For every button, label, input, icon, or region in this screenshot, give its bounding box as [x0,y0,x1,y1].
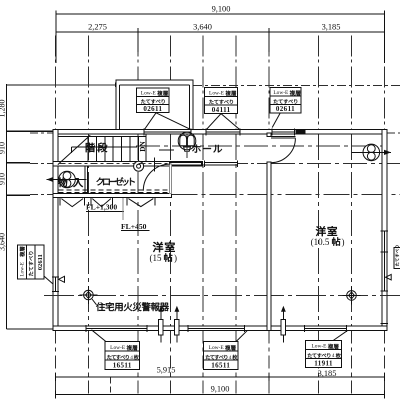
bay bump above stairs [116,80,193,130]
door to west room [271,137,296,163]
label closet [96,178,103,186]
wall outer right [382,130,387,331]
wall divider monoiri/closet [85,166,87,194]
dimension line 9100 bottom [55,385,384,399]
svg-text:DN: DN [139,141,147,152]
svg-text:(15: (15 [150,253,162,263]
grid vertical module lines [55,36,384,395]
stairs corner curl [134,161,144,171]
fire alarm symbol east [343,286,361,304]
svg-text:Low-E: Low-E [209,345,225,351]
dimension line 5915 / 3185 bottom [55,366,384,382]
svg-text:02611: 02611 [37,254,44,270]
closet east door leaf [169,164,171,194]
svg-text:9,100: 9,100 [211,385,230,394]
window right wall [381,231,388,323]
pointer right window [386,274,392,280]
wall closet south [53,194,172,198]
svg-text:2,275: 2,275 [88,22,107,31]
svg-text:Low-E: Low-E [141,90,157,96]
dimension line left column [0,84,53,329]
svg-text:3,185: 3,185 [318,369,337,378]
supply vent arrow 3 [281,306,286,343]
svg-text:02611: 02611 [143,105,162,113]
grid dash crossing side walls [53,294,59,296]
supply vent arrow 1 [158,306,163,343]
svg-text:910: 910 [0,142,7,154]
svg-text:9,100: 9,100 [212,4,231,13]
label FL+450 [121,222,150,231]
svg-text:3,185: 3,185 [322,22,341,31]
window tag T2 [205,88,238,114]
svg-text:4: 4 [130,355,133,361]
stairs label kaidan [86,143,95,152]
hall ceiling vent symbol [178,132,196,151]
svg-text:Low-E: Low-E [209,90,225,96]
svg-text:): ) [174,253,177,263]
grid horizontal module lines [7,85,400,295]
window tag B1 [92,330,140,370]
wall outer top [53,130,387,135]
grid dash inside closet north wall [59,163,169,165]
svg-text:(10.5: (10.5 [311,237,330,247]
passage opening header [205,161,238,167]
supply vent arrow 2 [174,306,179,343]
svg-text:4: 4 [332,353,335,359]
svg-text:5,915: 5,915 [157,366,176,375]
wall pier top right [296,130,305,134]
svg-text:FL+1,300: FL+1,300 [86,203,117,212]
svg-text:Low-E: Low-E [110,345,126,351]
window top A [144,128,191,135]
dimension line 9100 top [56,4,385,63]
window tag T1 [137,88,170,113]
label yoshitsu 15 [150,242,178,263]
tick on closet wall [154,158,156,172]
grid half-module line hall [186,134,188,163]
window tag right wall (clipped) [394,245,400,268]
closet hanger pole dashed [59,190,169,192]
window top B [206,128,240,135]
window tag B2 [204,330,248,369]
svg-text:Low-E: Low-E [273,90,289,96]
window tag T3 [270,88,301,114]
window bottom 3 [304,325,346,332]
label hall [192,145,200,153]
dimension line 2275/3640/3185 top [56,22,385,52]
stairs walk line [72,147,175,153]
tag T2 leader [207,114,240,130]
window top C [272,128,295,135]
fire alarm symbol west [79,286,97,304]
exhaust fan right wall [352,144,392,161]
label FL+1300 [86,198,124,220]
svg-text:11911: 11911 [314,360,333,368]
closet door swing arc [143,164,170,191]
svg-text:): ) [342,237,345,247]
wall outer bottom [53,326,387,331]
extension dash window1 centre [110,378,112,395]
pointer left window [59,276,65,282]
svg-text:3,640: 3,640 [0,233,7,251]
label mono-ire [58,178,67,187]
wall closet north / hall south [53,162,202,167]
window bottom 2 [188,325,245,332]
svg-text:Low-E: Low-E [312,344,328,350]
tag T1 leader [145,113,191,130]
svg-text:910: 910 [0,173,7,185]
window tag left wall (rotated) [18,245,53,284]
window tag B3 [306,330,348,367]
svg-text:3,640: 3,640 [193,22,212,31]
svg-text:04111: 04111 [212,106,231,114]
svg-text:02611: 02611 [276,105,295,113]
tag T3 leader [272,113,280,128]
wall outer left [53,130,58,331]
svg-text:FL+450: FL+450 [121,222,147,231]
window bottom 1 [86,325,147,332]
fire alarm label [92,299,169,311]
svg-text:16511: 16511 [113,362,132,370]
stairs [58,134,146,164]
folding door marks [60,198,155,207]
exhaust fan left wall [47,171,87,188]
window left wall [52,277,59,292]
svg-text:1,280: 1,280 [0,100,7,118]
label yoshitsu 10.5 [311,226,345,247]
svg-text:4: 4 [229,355,232,361]
svg-text:Low-E: Low-E [20,262,26,276]
svg-text:16511: 16511 [211,362,230,370]
wall partition between rooms [267,133,271,137]
